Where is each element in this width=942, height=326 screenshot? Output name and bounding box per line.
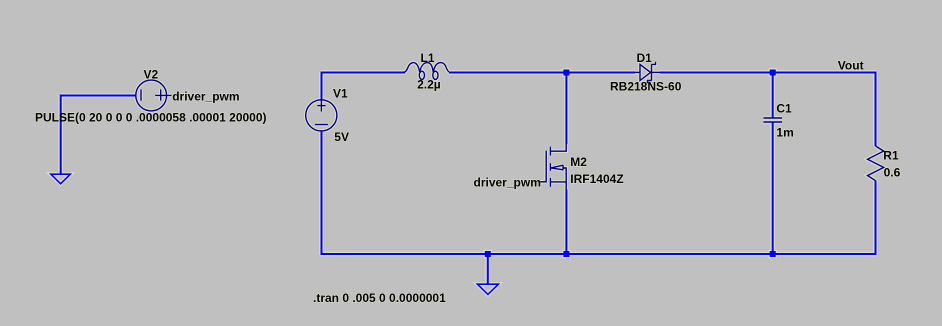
wire C1 bottom xyxy=(772,123,774,256)
schottky diode D1 xyxy=(635,62,661,83)
wire C1 top xyxy=(772,73,774,118)
wire V2 vertical to ground xyxy=(60,95,62,175)
svg-text:R1: R1 xyxy=(883,148,899,162)
svg-text:M2: M2 xyxy=(570,155,587,169)
svg-text:L1: L1 xyxy=(421,51,435,65)
wire top rail right (D1 to Vout corner) xyxy=(660,72,877,74)
svg-text:IRF1404Z: IRF1404Z xyxy=(570,172,623,186)
junction node (C1 bottom) xyxy=(770,251,776,257)
wire top rail left (V1 to L1) xyxy=(321,72,406,74)
svg-text:driver_pwm: driver_pwm xyxy=(474,176,541,190)
wire V2 horizontal xyxy=(61,95,137,97)
wire M2 drain xyxy=(565,73,567,145)
halo layer (screenshot resampling fringe, decorative) xyxy=(35,51,901,305)
wire ground stub xyxy=(487,254,489,285)
resistor R1 xyxy=(868,146,884,181)
svg-text:V2: V2 xyxy=(144,68,159,82)
wire top rail mid (L1 to D1) xyxy=(449,72,635,74)
inductor L1 xyxy=(403,63,451,80)
voltage source V1 xyxy=(306,100,337,131)
wire V1 top stub xyxy=(321,72,323,101)
junction node (ground tap) xyxy=(485,251,491,257)
wire R1 top xyxy=(875,72,877,147)
svg-text:driver_pwm: driver_pwm xyxy=(172,90,239,104)
junction node (M2 source) xyxy=(563,251,569,257)
capacitor C1 xyxy=(764,118,783,122)
wire M2 source xyxy=(565,190,567,256)
svg-text:C1: C1 xyxy=(776,102,792,116)
wire R1 bottom xyxy=(875,181,877,255)
ground (V2 net) xyxy=(51,174,70,184)
svg-text:RB218NS-60: RB218NS-60 xyxy=(610,80,682,94)
svg-text:PULSE(0 20 0 0 0 .0000058 .000: PULSE(0 20 0 0 0 .0000058 .00001 20000) xyxy=(35,110,267,124)
junction node (C1 top) xyxy=(770,70,776,76)
svg-text:2.2µ: 2.2µ xyxy=(417,78,441,92)
svg-text:D1: D1 xyxy=(637,51,653,65)
wire V1 bottom xyxy=(321,131,323,255)
svg-text:V1: V1 xyxy=(333,87,348,101)
svg-text:Vout: Vout xyxy=(838,59,864,73)
svg-text:.tran 0 .005 0 0.0000001: .tran 0 .005 0 0.0000001 xyxy=(313,291,446,305)
svg-text:5V: 5V xyxy=(334,130,349,144)
wire bottom rail xyxy=(321,253,877,255)
voltage source V2 xyxy=(136,80,172,111)
nmos transistor M2 xyxy=(540,144,566,191)
junction node (drain) xyxy=(563,70,569,76)
svg-text:0.6: 0.6 xyxy=(884,166,901,180)
ground (main) xyxy=(477,284,498,294)
svg-text:1m: 1m xyxy=(776,126,793,140)
